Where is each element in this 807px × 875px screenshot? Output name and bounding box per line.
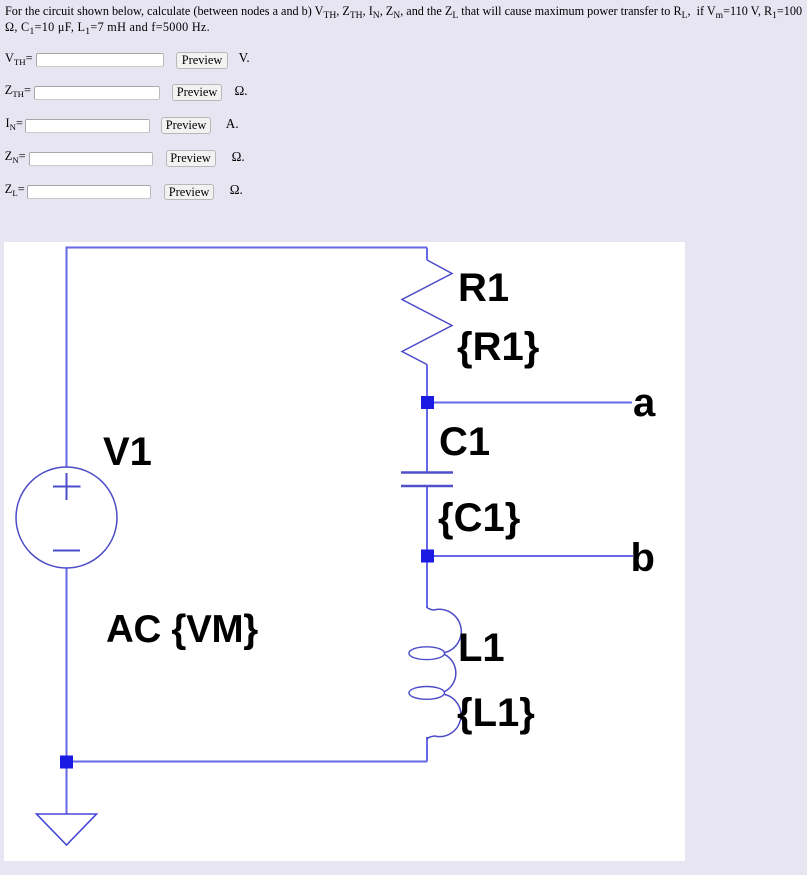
wire top horizontal xyxy=(67,247,428,249)
plus sign xyxy=(53,473,81,500)
wire capacitor bottom lead xyxy=(426,487,428,550)
svg-text:C1: C1 xyxy=(439,420,490,464)
node junction at R1/C1 (node a) xyxy=(421,396,434,409)
inductor loop 1 xyxy=(409,647,445,660)
wire resistor top lead xyxy=(426,248,428,261)
svg-text:R1: R1 xyxy=(458,266,509,310)
answer row VTH xyxy=(5,51,33,66)
answer row ZN xyxy=(5,149,26,164)
answer row ZTH xyxy=(5,83,31,98)
wire node b stub xyxy=(434,555,633,557)
circuit image panel xyxy=(4,242,685,861)
minus sign xyxy=(53,550,80,552)
svg-text:{C1}: {C1} xyxy=(438,496,520,540)
svg-text:V1: V1 xyxy=(103,430,152,474)
wire inductor top lead xyxy=(426,562,428,607)
svg-text:{L1}: {L1} xyxy=(457,691,535,735)
svg-text:b: b xyxy=(631,536,655,580)
capacitor C1 plates xyxy=(401,473,453,487)
wire node a stub xyxy=(434,402,632,404)
wire left vertical upper xyxy=(66,247,68,468)
resistor R1 xyxy=(402,260,452,365)
svg-text:{R1}: {R1} xyxy=(457,325,539,369)
node junction bottom left xyxy=(60,756,73,769)
node junction at C1/L1 (node b) xyxy=(421,550,434,563)
question text xyxy=(5,3,802,35)
wire resistor bottom lead xyxy=(426,365,428,398)
svg-text:AC {VM}: AC {VM} xyxy=(106,608,258,651)
answer row IN xyxy=(6,116,23,131)
ground xyxy=(37,814,97,845)
svg-text:L1: L1 xyxy=(458,626,505,670)
voltage source V1 circle xyxy=(16,467,117,568)
wire inductor bottom lead xyxy=(426,737,428,762)
answer row ZL xyxy=(5,182,25,197)
wire bottom horizontal xyxy=(67,761,428,763)
wire left vertical lower xyxy=(66,568,68,757)
inductor loop 2 xyxy=(409,687,445,700)
svg-text:a: a xyxy=(633,381,656,425)
wire capacitor top lead xyxy=(426,409,428,472)
inductor L1 xyxy=(426,607,461,740)
wire ground stub xyxy=(66,767,68,814)
